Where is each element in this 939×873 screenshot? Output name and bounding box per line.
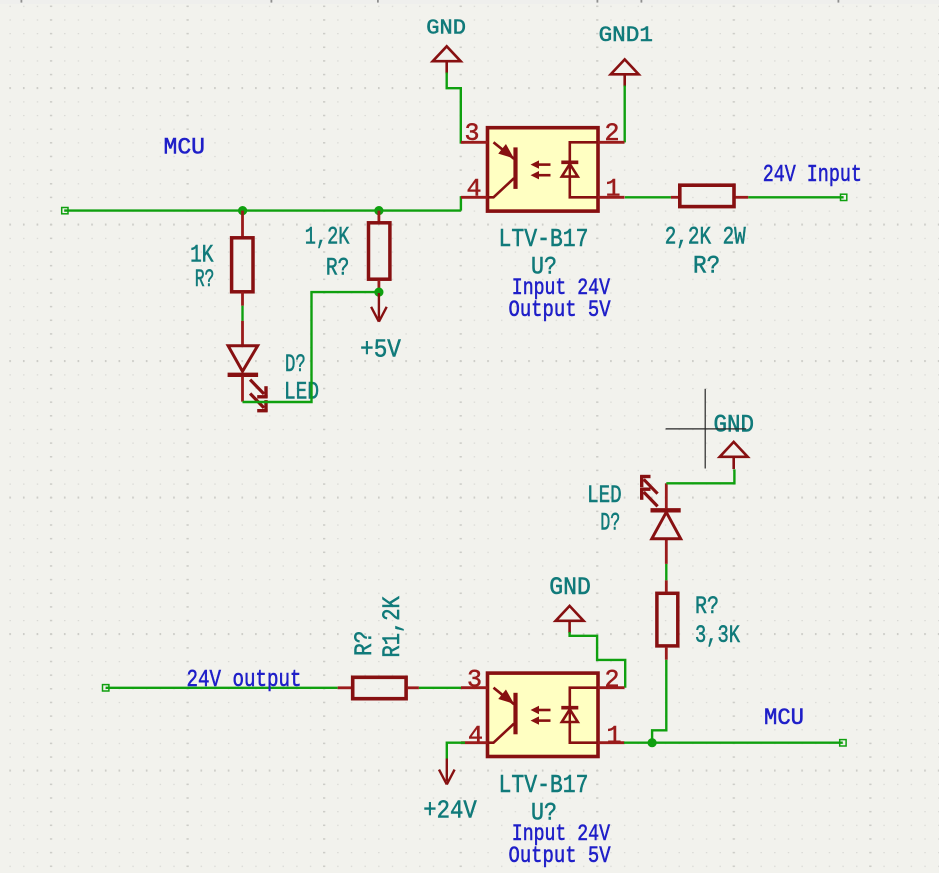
wire LED D1 to +5V node	[243, 292, 381, 402]
svg-text:Output 5V: Output 5V	[509, 843, 611, 869]
resistor R5 3,3K	[665, 648, 668, 660]
svg-text:GND: GND	[426, 17, 466, 40]
power symbol GND1: arrow	[611, 59, 639, 74]
resistor R1 1K	[241, 211, 244, 237]
svg-text:3,3K: 3,3K	[695, 621, 740, 650]
svg-text:3: 3	[467, 665, 482, 694]
optocoupler U2 body	[488, 673, 599, 756]
svg-text:R1,2K: R1,2K	[378, 596, 407, 657]
svg-text:Output 5V: Output 5V	[509, 297, 611, 323]
svg-text:1: 1	[606, 174, 621, 203]
U1 phototransistor emitter	[488, 178, 515, 197]
svg-text:+5V: +5V	[360, 334, 401, 364]
wire GND to U2 pin 2	[570, 632, 626, 688]
top edge tick marks (cropped UI remnants)	[21, 0, 23, 3]
unconnected end square (MCU bottom)	[840, 740, 846, 746]
LED D2 emission arrows	[644, 479, 658, 493]
svg-text:LED: LED	[587, 481, 622, 510]
svg-text:MCU: MCU	[164, 134, 206, 160]
svg-text:1,2K: 1,2K	[305, 223, 350, 252]
U1 pin 1 (right bottom)	[598, 196, 625, 199]
svg-text:24V Input: 24V Input	[763, 162, 862, 189]
LED D? (bottom circuit)	[665, 539, 668, 564]
svg-text:4: 4	[468, 721, 483, 750]
wire: 24V output net	[106, 687, 338, 689]
U2 pin 3 (left top)	[461, 686, 488, 689]
wire LED D2 to GND (right)	[666, 469, 734, 483]
svg-text:D?: D?	[600, 509, 620, 538]
U2 phototransistor base bar	[513, 693, 517, 735]
wire junction to R5	[652, 660, 666, 743]
svg-text:MCU: MCU	[764, 705, 804, 731]
svg-text:+24V: +24V	[423, 795, 477, 825]
svg-text:R?: R?	[693, 251, 720, 280]
svg-text:GND1: GND1	[599, 23, 653, 48]
LED D1 emission arrows	[250, 380, 264, 394]
wire MCU output net (bottom)	[624, 742, 843, 744]
svg-text:2: 2	[605, 119, 620, 148]
junction node at R1	[238, 206, 247, 215]
wire R3 to 24V input end	[748, 196, 843, 198]
svg-text:D?: D?	[285, 350, 306, 379]
optocoupler U1 body	[488, 128, 599, 211]
power symbol GND: arrow	[720, 442, 748, 457]
wire U2 pin 4 to +24V	[447, 743, 465, 759]
power symbol GND: arrow	[556, 606, 584, 621]
svg-text:24V output: 24V output	[187, 667, 302, 694]
junction node at R5 branch	[648, 738, 657, 747]
svg-text:GND: GND	[714, 410, 755, 439]
svg-text:2: 2	[605, 665, 620, 694]
unconnected end square (left, MCU wire)	[62, 208, 68, 214]
wire R1 to LED D1	[241, 306, 243, 321]
unconnected end square (24V Input)	[841, 194, 847, 200]
U1 light coupling arrows	[538, 163, 551, 166]
wire R5 to LED D2	[665, 564, 667, 580]
svg-text:4: 4	[466, 174, 481, 203]
svg-text:R?: R?	[350, 631, 379, 656]
resistor R3 2,2K 2W	[671, 196, 679, 199]
svg-text:1: 1	[607, 721, 622, 750]
junction node at +5V	[374, 288, 383, 297]
U2 light coupling arrows	[538, 709, 551, 712]
svg-text:2,2K 2W: 2,2K 2W	[665, 222, 746, 251]
wire GND1 to pin 2 of U1	[624, 86, 626, 143]
svg-text:LTV-B17: LTV-B17	[499, 224, 589, 254]
wire R4 to U2 pin 3	[419, 687, 465, 689]
U2 pin 1 (right bottom)	[598, 741, 625, 744]
U1 pin 3 (left top)	[461, 141, 488, 144]
U2 internal LED	[570, 688, 598, 707]
resistor R4 R1,2K	[338, 686, 353, 689]
power symbol +5V: arrow	[378, 293, 380, 319]
U1 phototransistor collector with arrow	[494, 142, 515, 159]
U2 phototransistor emitter	[488, 724, 515, 743]
wire U1 pin 1 to R3	[625, 196, 671, 198]
wire GND to pin 3 of U1	[447, 73, 465, 143]
editor crosshair cursor	[704, 389, 706, 469]
svg-text:R?: R?	[195, 265, 215, 294]
junction node at R2	[374, 206, 383, 215]
unconnected end square (24V output)	[103, 685, 109, 691]
U1 phototransistor base bar	[513, 147, 517, 189]
U2 pin 2 (right top)	[598, 686, 625, 689]
U2 phototransistor collector with arrow	[494, 688, 515, 705]
svg-text:3: 3	[464, 119, 479, 148]
power symbol +24V: arrow	[446, 759, 448, 782]
LED D? (top circuit)	[241, 321, 244, 346]
svg-text:LTV-B17: LTV-B17	[499, 770, 589, 800]
power symbol GND: arrow	[433, 46, 461, 61]
svg-text:R?: R?	[695, 592, 719, 621]
resistor R2 1,2K	[377, 211, 380, 222]
svg-text:GND: GND	[549, 573, 591, 602]
wire: MCU input net (top)	[64, 209, 461, 211]
U1 pin 4 (left bottom)	[461, 196, 488, 199]
U2 pin 4 (left bottom)	[461, 741, 488, 744]
svg-text:R?: R?	[326, 254, 350, 283]
U1 pin 2 (right top)	[598, 141, 625, 144]
U1 internal LED	[570, 142, 598, 161]
